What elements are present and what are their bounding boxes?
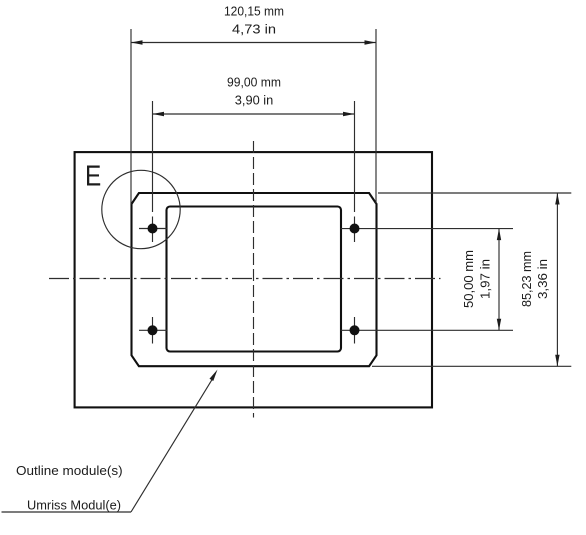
svg-text:3,90 in: 3,90 in <box>235 93 274 108</box>
svg-text:99,00 mm: 99,00 mm <box>227 74 281 89</box>
svg-text:4,73 in: 4,73 in <box>232 22 276 37</box>
svg-text:50,00 mm: 50,00 mm <box>461 250 476 308</box>
svg-text:85,23 mm: 85,23 mm <box>519 251 534 307</box>
svg-text:120,15 mm: 120,15 mm <box>224 3 284 18</box>
svg-text:Outline module(s): Outline module(s) <box>16 463 123 478</box>
svg-text:3,36 in: 3,36 in <box>535 259 550 299</box>
svg-text:E: E <box>85 159 101 191</box>
svg-text:1,97 in: 1,97 in <box>478 259 493 299</box>
svg-text:Umriss Modul(e): Umriss Modul(e) <box>27 498 121 513</box>
